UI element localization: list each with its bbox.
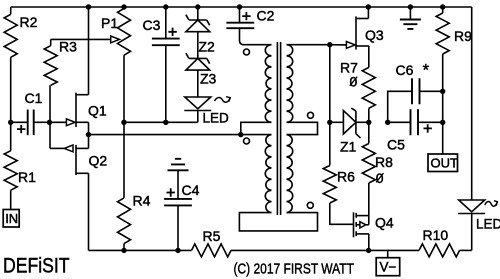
svg-text:Z3: Z3 <box>200 71 217 87</box>
node top rail Q3 drain <box>366 4 371 9</box>
transistor Q2 <box>75 145 77 175</box>
svg-text:*: * <box>423 61 430 80</box>
port IN box <box>3 210 19 228</box>
node C1 left junction <box>8 120 13 125</box>
wire LED to row <box>197 111 199 123</box>
node C6 branch <box>385 120 390 125</box>
svg-text:V−: V− <box>380 260 397 275</box>
wire right rail <box>471 7 473 200</box>
ground C4 top (inverted) <box>168 159 189 171</box>
transformer phase dot bottom-left <box>244 138 250 144</box>
transformer T1 winding bottom-right <box>287 135 293 213</box>
resistor R2 <box>4 14 17 57</box>
wire bottom rail right <box>231 249 369 251</box>
node C3 bottom <box>163 120 168 125</box>
capacitor C5 <box>388 121 411 123</box>
label C1 plus <box>17 125 25 133</box>
transformer T1 core <box>276 42 278 215</box>
wire top-right winding top lead <box>287 44 330 46</box>
resistor R1 <box>4 151 17 191</box>
svg-text:Q3: Q3 <box>365 27 384 43</box>
svg-text:R1: R1 <box>18 169 36 185</box>
svg-text:OUT: OUT <box>431 156 459 171</box>
zener Z3 <box>186 53 210 64</box>
svg-text:Q2: Q2 <box>89 153 108 169</box>
node top rail R9 <box>440 4 445 9</box>
wire C1 node to R1 <box>10 122 12 150</box>
svg-text:C1: C1 <box>25 90 43 106</box>
wire Q1Q2 to transformer <box>89 134 241 136</box>
wire bottom rail left <box>89 249 192 251</box>
node C4 bottom <box>175 248 180 253</box>
svg-text:LED: LED <box>203 111 230 126</box>
wire node to Q1 gate <box>50 121 68 123</box>
svg-text:Q1: Q1 <box>88 103 107 119</box>
capacitor C3 <box>165 7 167 38</box>
capacitor C2 <box>239 7 241 22</box>
resistor R6 <box>323 166 336 204</box>
node P1 bottom junction <box>121 120 126 125</box>
node top rail Q1 drain <box>86 4 91 9</box>
wire LED2 to bottom corner <box>471 214 473 251</box>
node Q1 Q2 junction <box>86 132 91 137</box>
LED D2 squiggle <box>485 201 497 206</box>
node top rail C2 <box>237 4 242 9</box>
node top rail C3 <box>163 4 168 9</box>
svg-text:LED: LED <box>476 217 500 232</box>
node R7 bottom <box>366 120 371 125</box>
node R4 bottom <box>121 248 126 253</box>
capacitor C4 <box>164 199 192 206</box>
svg-text:P1: P1 <box>101 15 118 31</box>
label C3 plus <box>168 28 176 36</box>
potentiometer P1 <box>118 8 131 55</box>
svg-text:C6: C6 <box>396 62 414 78</box>
svg-text:R9: R9 <box>454 28 472 44</box>
wire top-right winding bottom jog <box>287 122 318 134</box>
node Q4 source bottom <box>366 248 371 253</box>
ground symbol <box>409 7 411 20</box>
svg-text:C3: C3 <box>143 17 161 33</box>
transformer T1 winding top-right <box>287 45 293 123</box>
capacitor C6 <box>388 91 412 122</box>
svg-text:C5: C5 <box>387 137 405 153</box>
svg-text:R8: R8 <box>375 154 393 170</box>
node top rail P1 <box>121 4 126 9</box>
port OUT box <box>428 154 458 172</box>
resistor R5 <box>192 244 232 257</box>
wire R9 node to C5 node <box>442 91 444 122</box>
svg-text:R4: R4 <box>133 193 151 209</box>
svg-text:Z1: Z1 <box>340 139 357 155</box>
zener Z2 <box>186 15 210 26</box>
wire chain top <box>197 7 199 20</box>
transformer phase dot top-left <box>244 49 250 55</box>
svg-text:DEFiSIT: DEFiSIT <box>3 254 70 278</box>
node C5 right <box>440 120 445 125</box>
svg-text:IN: IN <box>5 211 18 226</box>
node top rail ground <box>408 4 413 9</box>
wire Z2 to Z3 <box>197 32 199 59</box>
wire R2 bottom to C1 node <box>10 57 12 122</box>
resistor R7 <box>362 67 375 108</box>
transformer T1 winding top-left <box>265 45 271 123</box>
resistor R3 <box>44 46 57 86</box>
label C5 plus <box>424 124 432 132</box>
wire C5 node to OUT <box>442 122 444 154</box>
resistor R10 <box>460 249 472 251</box>
wire R1 bottom to IN box <box>10 190 12 209</box>
label C4 plus <box>167 188 175 196</box>
resistor R8 <box>368 122 370 143</box>
capacitor C1 <box>28 110 34 136</box>
svg-text:R6: R6 <box>337 169 355 185</box>
transformer phase dot top-right <box>308 112 314 118</box>
transistor Q4 <box>353 212 355 237</box>
wire R3 bottom to node <box>49 85 51 122</box>
resistor R4 <box>123 122 125 198</box>
svg-text:C4: C4 <box>182 182 200 198</box>
wire bottom-left winding top lead <box>241 134 272 136</box>
node gate junction <box>47 120 52 125</box>
wire Z3 to LED <box>197 70 199 97</box>
wire node down for Q2 gate <box>49 122 51 148</box>
transistor Q1 <box>75 93 77 127</box>
wire mid row <box>124 121 198 123</box>
LED D1 squiggle <box>215 97 231 102</box>
svg-text:Z2: Z2 <box>199 39 216 55</box>
zener Z1 <box>330 121 344 123</box>
svg-text:R2: R2 <box>20 14 38 30</box>
svg-text:Q4: Q4 <box>375 215 394 231</box>
LED D2 <box>459 200 485 212</box>
transformer T1 winding bottom-left <box>265 135 271 213</box>
node Z1 left junction <box>327 120 332 125</box>
wire top-left winding bottom lead <box>241 122 272 134</box>
resistor R9 <box>442 7 444 13</box>
wire transformer bottom U <box>239 213 317 231</box>
transformer phase dot bottom-right <box>307 202 313 208</box>
svg-text:R3: R3 <box>59 39 77 55</box>
svg-text:(C) 2017 FIRST WATT: (C) 2017 FIRST WATT <box>234 260 354 277</box>
svg-text:C2: C2 <box>257 8 275 24</box>
node Q3 gate junction <box>327 42 332 47</box>
node transformer left mid <box>238 132 243 137</box>
transistor Q3 <box>355 16 357 49</box>
wire R6 to Q4 gate <box>330 203 354 224</box>
node C6 right <box>440 89 445 94</box>
label C2 plus <box>242 12 250 20</box>
node top rail zener chain <box>195 4 200 9</box>
wire top rail <box>11 6 472 8</box>
svg-text:R10: R10 <box>423 227 449 243</box>
svg-text:R5: R5 <box>203 228 221 244</box>
LED D1 <box>185 97 211 109</box>
port V- box <box>387 250 389 257</box>
wire left rail upper (top to R2) <box>10 7 12 14</box>
wire x330 vertical <box>329 45 331 166</box>
wire R3 top to P1 wiper <box>50 39 52 45</box>
